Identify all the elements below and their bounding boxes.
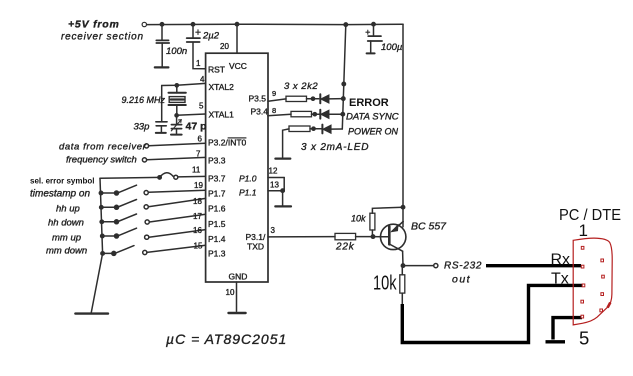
svg-text:100µ: 100µ: [381, 42, 403, 53]
resistor R5 10k pull-up: [370, 213, 375, 230]
resistor R3 2k2 POWER ON: [289, 126, 310, 132]
svg-text:22k: 22k: [335, 242, 355, 253]
switch S3 hh up: [101, 198, 205, 209]
thick cable group: [402, 266, 582, 343]
svg-text:+5V from: +5V from: [68, 19, 120, 31]
ground U1: [229, 312, 246, 314]
svg-text:10k: 10k: [351, 214, 366, 224]
svg-text:mm down: mm down: [46, 246, 87, 257]
wire R5 bottom to base: [371, 230, 373, 237]
resistor R6 10k: [400, 275, 405, 293]
J1 pin 2 Rx: [581, 265, 584, 268]
junction R5/+5V: [401, 206, 404, 209]
svg-text:timestamp on: timestamp on: [30, 189, 90, 200]
svg-text:19: 19: [194, 181, 203, 190]
svg-text:RS-232: RS-232: [444, 261, 482, 272]
wire R4 to base node: [356, 236, 373, 238]
svg-text:11: 11: [192, 166, 201, 175]
svg-text:16: 16: [193, 226, 202, 235]
svg-text:out: out: [452, 274, 471, 286]
junction LED rail / D2: [341, 113, 344, 116]
junction bus row5: [101, 234, 104, 237]
wire XTAL2 branch down to 33p: [161, 86, 163, 122]
junction R2/LED2: [313, 113, 316, 116]
J1 pin 7: [602, 275, 605, 278]
svg-text:4: 4: [200, 75, 205, 84]
terminal data from receiver: [144, 144, 148, 148]
svg-text:P1.3: P1.3: [208, 249, 226, 259]
svg-text:P1.6: P1.6: [208, 204, 226, 214]
svg-text:1: 1: [579, 221, 588, 240]
J1 pin 1: [581, 246, 584, 249]
svg-text:P3.5: P3.5: [249, 93, 267, 103]
svg-text:P3.7: P3.7: [208, 174, 226, 184]
wire collector to RS-232 out: [403, 265, 434, 267]
resistor R1 2k2 ERROR: [286, 96, 307, 101]
junction bus row3: [100, 206, 103, 209]
svg-text:P3.3: P3.3: [208, 156, 226, 166]
svg-text:5: 5: [199, 102, 204, 111]
svg-text:8: 8: [272, 106, 276, 115]
svg-text:Tx: Tx: [551, 271, 569, 288]
svg-text:RST: RST: [208, 65, 225, 75]
capacitor C3 100u: [366, 24, 382, 53]
svg-text:data from receiver: data from receiver: [59, 142, 147, 153]
svg-text:hh up: hh up: [56, 204, 80, 215]
svg-text:P1.7: P1.7: [208, 189, 226, 199]
svg-text:2µ2: 2µ2: [202, 31, 220, 42]
svg-text:POWER ON: POWER ON: [348, 127, 399, 137]
wire +5V vertical to transistor emitter: [402, 24, 404, 227]
svg-text:P1.0: P1.0: [239, 174, 257, 184]
junction bus row4: [100, 220, 103, 223]
svg-text:P1.5: P1.5: [208, 219, 226, 229]
switch S4 hh down: [102, 214, 206, 224]
wire collector node to R6: [401, 266, 403, 275]
J1 pin 3 Tx: [582, 284, 585, 287]
wire base: [373, 236, 389, 238]
transistor Q1 BC557: [381, 222, 406, 266]
svg-text:15: 15: [194, 242, 203, 251]
svg-text:33p: 33p: [134, 122, 150, 133]
junction LED rail / D1: [342, 97, 345, 100]
svg-text:17: 17: [193, 212, 202, 221]
svg-text:ERROR: ERROR: [349, 97, 389, 109]
junction rail/100u: [372, 23, 375, 26]
switch S6 mm down: [103, 245, 206, 255]
svg-text:µC = AT89C2051: µC = AT89C2051: [166, 331, 287, 347]
junction collector node: [401, 264, 404, 267]
capacitor C1 100n: [155, 24, 169, 67]
junction rail/VCC pin 20: [235, 23, 238, 26]
svg-text:VCC: VCC: [229, 61, 247, 71]
junction rail/LED rail: [344, 23, 347, 26]
svg-text:hh down: hh down: [48, 218, 84, 229]
svg-text:5: 5: [579, 327, 589, 348]
svg-text:TXD: TXD: [247, 242, 264, 252]
junction base node: [371, 235, 374, 238]
LED D2 DATA SYNC: [320, 110, 342, 119]
terminal frequency switch: [142, 158, 146, 162]
resistor R4 22k: [335, 233, 356, 239]
U1 pin 20 VCC wire: [236, 24, 238, 53]
+5V supply terminal: [142, 22, 146, 26]
ground switch bus: [75, 312, 108, 314]
svg-text:13: 13: [270, 181, 279, 190]
switch S5 mm up: [102, 228, 205, 239]
svg-text:frequency switch: frequency switch: [66, 155, 137, 166]
svg-text:3 x 2mA-LED: 3 x 2mA-LED: [301, 142, 369, 153]
wire R2 to LED2: [312, 113, 321, 115]
wire R1 to LED1: [307, 98, 319, 100]
wire R5 top to +5V: [372, 207, 403, 213]
junction LED rail upper: [342, 82, 345, 85]
switch S1 sel. error symbol: [100, 173, 206, 179]
U1 pin 3 TXD wire: [268, 236, 335, 238]
J1 pin 8: [601, 293, 604, 296]
svg-text:P3.1/: P3.1/: [246, 232, 266, 242]
junction XTAL1/crystal: [175, 114, 178, 117]
svg-text:1: 1: [196, 59, 201, 68]
svg-text:10: 10: [226, 288, 235, 297]
LED D3 POWER ON: [322, 125, 342, 134]
capacitor 33p: [156, 122, 167, 133]
LED D1 ERROR: [320, 94, 343, 103]
svg-text:12: 12: [269, 167, 278, 176]
svg-text:6: 6: [198, 135, 203, 144]
crystal X1 9.216 MHz: [169, 85, 186, 115]
J1 pin 6: [601, 259, 604, 262]
svg-text:3: 3: [271, 226, 276, 235]
J1 pin 5: [581, 315, 584, 318]
junction rail/100n: [160, 23, 163, 26]
wire cable Rx: [486, 264, 581, 267]
switch bus vertical: [91, 178, 102, 312]
capacitor C2 2u2: [187, 24, 201, 42]
ground R3: [275, 158, 290, 160]
U1 pin 9 wire P3.5: [268, 99, 286, 101]
junction R3/LED3: [312, 127, 315, 130]
svg-text:DATA SYNC: DATA SYNC: [346, 112, 399, 123]
IC U1 AT89C2051: [206, 53, 268, 282]
trimmer capacitor 47p: [171, 115, 182, 134]
U1 pin 10 GND wire: [236, 282, 238, 311]
svg-text:XTAL1: XTAL1: [209, 109, 235, 119]
wire R3 to LED3: [310, 128, 322, 130]
U1 pin 8 wire P3.4: [268, 114, 291, 116]
wire cable ground pin 5: [553, 318, 582, 340]
U1 pin 4 XTAL2 wire: [162, 83, 206, 85]
svg-text:7: 7: [196, 150, 201, 159]
svg-text:sel. error symbol: sel. error symbol: [30, 177, 94, 186]
svg-text:3 x 2k2: 3 x 2k2: [284, 81, 318, 92]
U1 pin 7 wire frequency switch: [147, 157, 206, 159]
J1 pin 9: [600, 309, 603, 312]
switch S2 timestamp on: [101, 185, 206, 195]
junction rail/2u2: [191, 23, 194, 26]
ground P1.0/P1.1: [275, 205, 291, 207]
svg-text:P1.1: P1.1: [239, 188, 257, 198]
wire LED rail vertical: [342, 25, 346, 129]
DB9 connector J1: [573, 238, 612, 325]
svg-text:receiver section: receiver section: [61, 32, 144, 43]
wire R6 to cable: [401, 293, 403, 305]
U1 pin 5 XTAL1 wire: [177, 114, 206, 115]
wire pin12 to pin13 tie: [283, 178, 285, 191]
U1 pin 13 wire P1.1: [268, 190, 284, 192]
wire +5V rail: [147, 23, 403, 25]
U1 pin 12 wire P1.0: [268, 177, 284, 179]
wire cable Tx: [402, 285, 582, 342]
svg-text:P3.2/INT0: P3.2/INT0: [208, 138, 247, 148]
svg-text:100n: 100n: [166, 46, 187, 57]
svg-text:XTAL2: XTAL2: [209, 82, 235, 92]
wire 2u2 to RST pin 1: [193, 42, 206, 68]
svg-text:9: 9: [272, 89, 276, 98]
junction bus row2: [99, 191, 102, 194]
svg-text:10k: 10k: [373, 273, 397, 295]
svg-text:P3.4: P3.4: [251, 106, 269, 116]
svg-text:Rx: Rx: [551, 252, 571, 269]
svg-text:9.216 MHz: 9.216 MHz: [122, 95, 166, 105]
svg-text:PC / DTE: PC / DTE: [559, 207, 621, 224]
junction P1.1 tie: [281, 189, 284, 192]
resistor R2 2k2 DATA SYNC: [291, 111, 312, 116]
J1 pin 4: [581, 300, 584, 303]
svg-text:mm up: mm up: [52, 233, 81, 244]
junction bus row6: [101, 252, 104, 255]
svg-text:47 p: 47 p: [186, 121, 207, 133]
U1 pin 6 wire data from receiver: [149, 143, 206, 146]
svg-text:P1.4: P1.4: [208, 234, 226, 244]
junction XTAL2/crystal: [175, 84, 178, 87]
ground cable: [546, 340, 566, 343]
wire R3 left to ground: [283, 129, 289, 157]
wire tie to ground: [282, 191, 284, 206]
svg-text:20: 20: [220, 42, 229, 51]
svg-text:BC 557: BC 557: [411, 221, 447, 233]
svg-text:GND: GND: [229, 272, 248, 282]
terminal RS-232 out: [434, 264, 438, 268]
junction R1/LED1: [311, 97, 314, 100]
svg-text:18: 18: [193, 197, 202, 206]
